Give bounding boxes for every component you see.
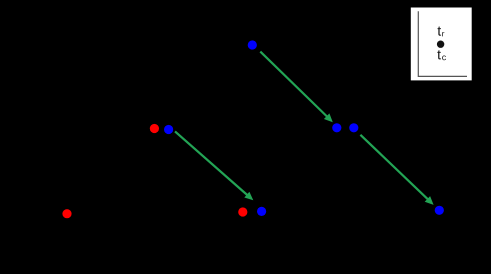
- blue point: task 4 completion: [435, 206, 444, 215]
- legend label subscript r: [442, 32, 444, 36]
- arrow from task 2 release to task 2 completion: [175, 131, 253, 200]
- blue point: task 3 release: [248, 40, 257, 49]
- blue point: task 2 release: [164, 125, 173, 134]
- legend label subscript c: [442, 55, 446, 60]
- blue point: task 4 release: [349, 123, 358, 132]
- red point: task 2 time marker: [150, 124, 159, 133]
- legend label t of t_r: [438, 27, 442, 36]
- legend label t of t_c: [437, 50, 441, 59]
- red point: task 1 time marker: [62, 209, 71, 218]
- legend marker dot: [437, 41, 444, 48]
- arrow from task 4 release to task 4 completion: [360, 135, 433, 205]
- arrow from task 3 release to task 3 completion: [260, 52, 333, 123]
- blue point: task 3 completion: [332, 123, 341, 132]
- red point: task 3 time marker: [238, 207, 247, 216]
- inset axes spines (L shape): [418, 11, 467, 76]
- legend / inset box: [411, 8, 472, 81]
- blue point: task 2 completion: [257, 207, 266, 216]
